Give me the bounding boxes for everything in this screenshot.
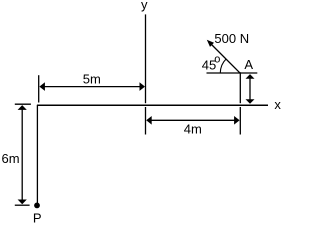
45 degree arc [220,59,226,73]
svg-text:y: y [141,0,148,12]
wire: 4m right tick below x-axis [239,107,241,135]
dimension: 6m vertical double arrow [15,104,31,205]
dimension: 5m horizontal double arrow [39,75,145,102]
wire: body left edge down to P [36,105,38,203]
svg-text:500 N: 500 N [214,31,249,46]
svg-text:6m: 6m [1,151,19,166]
svg-text:x: x [274,97,281,112]
svg-text:5m: 5m [83,72,101,87]
x-axis (with body top edge, one horizontal line) [37,104,268,106]
force arrow 500 N at 45 deg [207,40,241,74]
svg-text:A: A [244,57,253,72]
svg-text:P: P [33,210,42,225]
wire: horizontal line at A corner (angle reference + dim tick) [207,72,258,74]
wire: body right edge above x-axis (corner A down to x-axis) [239,72,241,103]
dimension: A height double arrow [246,74,255,104]
svg-text:4m: 4m [184,121,202,136]
node P dot [34,203,40,209]
y-axis [145,14,147,103]
dimension: 4m horizontal double arrow [146,107,240,135]
svg-text:o: o [214,53,220,65]
